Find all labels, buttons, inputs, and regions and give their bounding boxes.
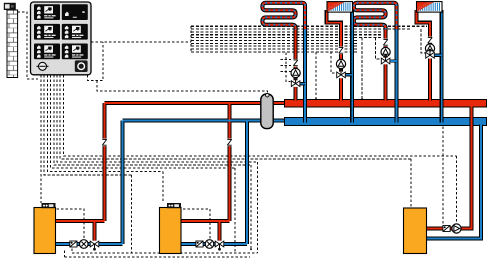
underfloor coil HC3 — [354, 3, 397, 31]
bypass HC2 — [341, 73, 352, 76]
module display 6 — [62, 44, 88, 60]
return manifold (blue) — [285, 118, 487, 126]
boiler B2 — [160, 208, 182, 254]
bypass HC3 — [386, 59, 397, 62]
pipe: HC2 return riser — [350, 10, 354, 123]
wire drop to bottom bus left — [131, 175, 133, 253]
pump HC1 — [291, 68, 300, 77]
boiler B1 control strip — [42, 203, 56, 208]
wire: flow sensor manifold right — [361, 38, 363, 99]
wire row y52 — [191, 51, 358, 53]
pipe: HC3 return riser — [395, 30, 399, 123]
pipe: HC3 supply riser — [384, 30, 388, 101]
wire row y26 — [191, 25, 427, 27]
pipe: B2 return — [181, 243, 247, 245]
pipe: B1 riser blue — [122, 121, 124, 245]
wire: outdoor sensor — [18, 12, 39, 79]
check valve B1 — [70, 241, 77, 247]
pipe: B1 return — [55, 243, 123, 245]
wire to pump P1 — [57, 209, 85, 239]
wire drop to valve B2 area — [250, 165, 252, 249]
wire drop to boiler B3 — [410, 159, 412, 208]
wire drop to boiler B1 — [40, 75, 42, 203]
supply manifold (red) — [285, 99, 487, 107]
module display 1 — [34, 4, 60, 20]
wire row y40 — [191, 39, 358, 41]
wire: panel to bundle — [91, 41, 191, 43]
pipe: B3 return riser — [424, 125, 481, 239]
wire bundle lower row y171 — [47, 75, 163, 172]
module display 2 — [62, 4, 88, 20]
bottom wire bus 1 — [72, 252, 258, 254]
check valve riser B1 — [102, 139, 107, 147]
pump HC3 — [381, 47, 390, 56]
mixing valve HC4 — [425, 52, 434, 59]
wire row y35 — [191, 34, 383, 36]
check valve HC1 — [293, 59, 298, 67]
pipe: B3 supply riser — [426, 107, 472, 229]
underfloor coil HC1 — [262, 3, 305, 31]
pump HC2 — [336, 59, 345, 68]
wire row y49 — [191, 48, 358, 50]
wire drop to mixing valve HC4 — [421, 29, 426, 53]
pipe: B1 supply — [55, 220, 105, 222]
sensor box — [4, 3, 16, 10]
panel dial — [37, 65, 49, 67]
bypass HC1 — [296, 82, 305, 85]
wire row y32 — [191, 31, 383, 33]
check valve riser B2 — [227, 139, 232, 147]
pump P1 — [80, 240, 89, 249]
pipe: HC4 supply riser — [416, 10, 430, 100]
wire drop to mixing valve HC3 — [376, 38, 382, 59]
pipe: supply header to separator — [105, 102, 263, 104]
wire drop to mixing valve HC1 — [286, 53, 291, 82]
wire bundle lower row y162 — [57, 75, 258, 162]
wire bundle lower row y159 — [60, 75, 411, 159]
check valve HC3 — [383, 39, 388, 47]
mixing valve B2 — [215, 241, 224, 248]
wire row y46 — [191, 45, 358, 47]
wire drop to pump P3 — [456, 156, 458, 223]
pipe: HC2 supply riser — [327, 10, 341, 100]
pipe: B2 riser red — [229, 103, 231, 221]
pipe: HC1 supply riser — [294, 30, 298, 101]
pipe: separator to supply manifold — [271, 102, 286, 104]
pipe: separator to return manifold — [271, 120, 286, 122]
separator sensor — [266, 93, 270, 97]
bypass HC4 — [430, 54, 442, 57]
radiator HC4 — [417, 2, 443, 13]
hydraulic separator — [261, 94, 273, 129]
wire drop to mixing valve HC2 — [331, 52, 336, 74]
wire to pump P2 — [183, 209, 210, 239]
pump P2 — [205, 240, 214, 249]
pipe: HC1 return riser — [303, 30, 307, 123]
boiler B2 control strip — [167, 203, 181, 208]
controller panel — [31, 2, 92, 75]
mixing valve HC1 — [291, 80, 300, 87]
wire bundle lower row y175 — [44, 75, 131, 175]
mixing valve B1 — [90, 241, 99, 248]
boiler B3 — [404, 208, 427, 254]
pipe: B1 mixing branch — [94, 221, 96, 244]
wire: separator sensor — [97, 81, 268, 95]
check valve HC4 — [427, 37, 432, 45]
mixing valve HC3 — [381, 58, 390, 65]
wire row y38 — [191, 37, 383, 39]
pipe: B1 riser red — [104, 103, 106, 221]
boiler pipework outlines — [55, 219, 105, 223]
wire drop to bottom bus right — [257, 162, 259, 253]
wire: flow sensor manifold left — [315, 52, 317, 99]
pump P3 — [452, 224, 461, 233]
wire bundle upper: brace — [190, 26, 192, 53]
module display 4 — [62, 24, 88, 40]
module display 5 — [34, 44, 60, 60]
pipe: B2 mixing branch — [219, 221, 221, 244]
wire drop to check valve B3 — [442, 127, 444, 224]
pipe: B2 supply — [181, 220, 230, 222]
wire bundle lower row y165 — [54, 75, 251, 165]
pump HC4 — [425, 44, 434, 53]
chimney with outdoor sensor — [7, 10, 18, 78]
check valve HC2 — [338, 47, 343, 55]
wire row y43 — [191, 42, 358, 44]
wire bundle lower row y156 — [63, 75, 456, 156]
pipe: B2 riser blue — [246, 121, 248, 245]
wire row y29 — [191, 28, 412, 30]
check valve B2 — [196, 241, 203, 247]
module display 3 — [34, 24, 60, 40]
panel button — [75, 60, 88, 72]
wire bundle lower row y168 — [51, 75, 235, 168]
check valve B3 — [443, 226, 450, 232]
mixing valve HC2 — [336, 72, 345, 79]
bottom wire bus 2 — [65, 256, 251, 258]
pipe: HC4 return riser — [440, 10, 444, 123]
radiator HC2 — [327, 2, 353, 13]
wire drop to boiler B2 — [162, 171, 164, 203]
boiler B1 — [34, 208, 56, 254]
pipe: return header to separator — [123, 120, 263, 122]
